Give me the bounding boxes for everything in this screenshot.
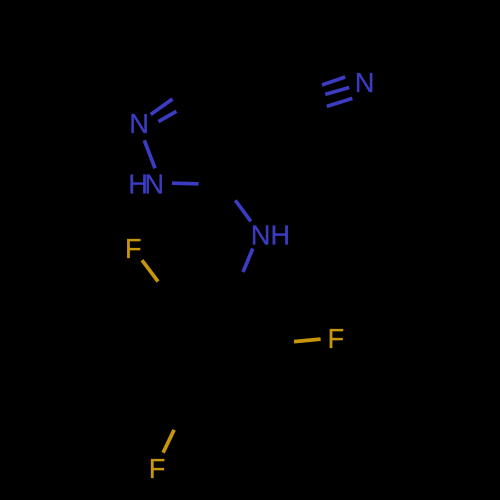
svg-text:N: N (144, 168, 164, 199)
wire: dark halves of triple bond (297, 85, 322, 96)
wire: benzene C5b-C6b (148, 300, 173, 355)
wire: benzene ring C1-C2 (233, 295, 267, 344)
wire: orange half F bottom bond (163, 430, 174, 453)
wire: benzene C6b-C1 (172, 295, 233, 300)
wire: benzene C1=C2 inner (225, 302, 253, 343)
wire: blue half C5-NH (235, 200, 251, 221)
wire: benzene C3b=C4b inner (188, 388, 238, 393)
svg-text:N: N (355, 67, 375, 98)
wire: dark half of C2-F right (267, 342, 294, 344)
wire: benzene C4b-C5b (148, 355, 183, 404)
wire: faint carbon skeleton, pyrazole C3-C4 (194, 84, 241, 125)
wire: dark half of C5-NH (225, 184, 235, 200)
wire: C4-Csp nitrile stem (241, 105, 300, 125)
wire: pyrazole C4=C5 inner (217, 128, 231, 180)
svg-text:N: N (129, 108, 149, 139)
wire: blue half NH-C1 (243, 249, 253, 273)
wire: pyrazole C4-C5 outer (225, 125, 241, 185)
wire: blue half N2=C3 outer (151, 99, 173, 115)
wire: dark half of N1-C5 (199, 182, 226, 186)
wire: blue half N1-C5 (172, 181, 199, 185)
wire: dark half of C6b-F left (158, 282, 172, 301)
svg-text:F: F (328, 323, 345, 354)
svg-text:H: H (270, 219, 290, 250)
wire: orange half F left bond (142, 260, 158, 281)
wire: dark half of N2=C3 outer (173, 84, 195, 99)
svg-text:F: F (125, 233, 142, 264)
wire: N1-N2 bond (blue) (144, 140, 155, 168)
wire: benzene C3b-C4b (182, 398, 242, 404)
wire: benzene C5b=C6b inner (159, 308, 180, 353)
wire: dark half of NH-C1 (233, 272, 243, 295)
wire: dark half of C4b-F bottom (174, 404, 182, 430)
wire: dark half of N2=C3 inner (176, 102, 189, 112)
svg-text:N: N (251, 219, 271, 250)
svg-text:F: F (149, 453, 166, 484)
wire: nitrile triple bond blue halves (322, 77, 345, 85)
wire: benzene C2-C3b (242, 344, 267, 398)
wire: blue half N2=C3 inner (158, 111, 176, 121)
wire: orange half F right bond (294, 339, 321, 342)
